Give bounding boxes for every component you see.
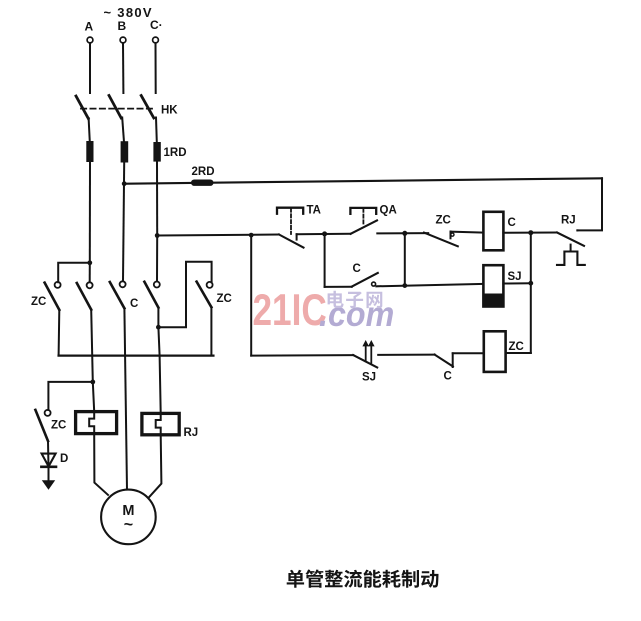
svg-text:C: C bbox=[130, 298, 138, 310]
contactor ZC contact 2 (phase A) bbox=[87, 282, 93, 288]
wire control main row left bbox=[157, 235, 279, 236]
junction phase A braking branch bbox=[90, 380, 95, 385]
wire phase C fuse down bbox=[156, 162, 158, 237]
wire 2RD control feed line bbox=[124, 178, 602, 183]
coil ZC bbox=[484, 331, 506, 372]
diode D bbox=[42, 454, 56, 467]
caption 单管整流能耗制动 bbox=[287, 570, 304, 588]
wire contact1 bottom bbox=[58, 310, 61, 356]
switch HK pole B blade bbox=[109, 96, 121, 119]
svg-text:ZC: ZC bbox=[436, 215, 451, 227]
svg-text:C: C bbox=[353, 263, 361, 275]
svg-text:C: C bbox=[444, 371, 452, 383]
contact C bottom row bbox=[435, 355, 453, 367]
contactor ZC contact 5 bracket bbox=[158, 262, 211, 327]
wire phase C to motor bbox=[149, 435, 162, 498]
wire self-hold left vertical bbox=[324, 234, 326, 287]
svg-text:ZC: ZC bbox=[217, 293, 232, 305]
pushbutton QA bbox=[350, 208, 376, 214]
coil C bbox=[483, 212, 503, 251]
wire phase B fuse down bbox=[123, 163, 124, 282]
thermal element RJ phase A bbox=[76, 412, 117, 434]
wire phase B HK to fuse bbox=[122, 118, 124, 143]
coil SJ bbox=[483, 265, 503, 306]
contactor ZC contact 1 bbox=[55, 282, 61, 288]
thermal element RJ phase C bbox=[142, 413, 179, 434]
svg-text:~: ~ bbox=[124, 517, 133, 534]
svg-text:C·: C· bbox=[150, 18, 163, 32]
junction right vertical top bbox=[528, 230, 533, 235]
junction bracket phase C bbox=[156, 325, 161, 330]
contact C self-hold bbox=[325, 286, 352, 288]
svg-text:ZC: ZC bbox=[509, 341, 524, 353]
contactor C contact 3 (phase B) bbox=[120, 281, 126, 287]
wire contact5 bottom bbox=[210, 307, 212, 355]
svg-text:TA: TA bbox=[307, 205, 321, 217]
wire phase C terminal to HK bbox=[155, 43, 157, 93]
svg-text:ZC: ZC bbox=[51, 420, 66, 432]
svg-text:A: A bbox=[85, 20, 94, 34]
junction phase B 2RD bbox=[122, 181, 127, 186]
fuse phase B bbox=[121, 141, 129, 162]
contactor ZC contact 1 bracket bbox=[58, 263, 90, 283]
wire phase A HK to fuse bbox=[89, 118, 90, 142]
contact RJ NC thermal bbox=[557, 233, 584, 246]
wire ZC to C coil bbox=[451, 232, 484, 233]
junction control line phase C bbox=[155, 233, 160, 238]
wire C coil to RJ bbox=[503, 232, 557, 234]
contact ZC NC bbox=[424, 233, 458, 247]
fuse phase A bbox=[86, 141, 93, 162]
svg-text:D: D bbox=[60, 453, 68, 465]
contactor ZC contact 5 bbox=[207, 282, 213, 288]
wire braking branch horizontal bbox=[48, 382, 92, 410]
junction bracket phase A bbox=[87, 260, 92, 265]
switch HK pole A blade bbox=[76, 96, 88, 119]
wire bottom branch vertical bbox=[250, 235, 252, 356]
contactor C contact 4 (phase C) bbox=[154, 282, 160, 288]
wire contact6 to diode bbox=[47, 441, 50, 467]
wire phase A fuse to bracket junction bbox=[89, 162, 91, 263]
wire right vertical bbox=[530, 233, 532, 353]
contactor ZC contact 6 bbox=[45, 410, 51, 416]
svg-text:B: B bbox=[118, 19, 127, 33]
svg-text:SJ: SJ bbox=[362, 372, 376, 384]
wire phase A terminal to HK bbox=[89, 43, 91, 93]
wire braking rail bbox=[59, 354, 214, 356]
junction self-hold left bbox=[322, 231, 327, 236]
svg-text:SJ: SJ bbox=[508, 271, 522, 283]
svg-text:ZC: ZC bbox=[31, 296, 46, 308]
svg-text:C: C bbox=[508, 217, 516, 229]
contact SJ delayed bbox=[353, 355, 377, 367]
wire bottom row left bbox=[251, 354, 353, 357]
wire QA right bbox=[377, 232, 428, 234]
HK dashed link bbox=[81, 108, 156, 110]
wire contact4 bottom (phase C) bbox=[158, 308, 160, 414]
wire phase A to motor bbox=[94, 434, 108, 495]
svg-text:HK: HK bbox=[161, 105, 178, 117]
watermark 电子网 bbox=[328, 291, 344, 308]
svg-text:QA: QA bbox=[380, 205, 397, 217]
wire ZC coil right bbox=[506, 352, 531, 354]
wire phase B terminal to HK bbox=[122, 43, 124, 93]
svg-text:RJ: RJ bbox=[184, 427, 199, 439]
wire self-hold right vertical bbox=[404, 233, 406, 285]
fuse 1RD phase C bbox=[153, 142, 160, 162]
svg-text:1RD: 1RD bbox=[164, 147, 187, 159]
wire C contact to ZC coil bbox=[453, 352, 484, 354]
svg-text:~ 380V: ~ 380V bbox=[104, 5, 153, 20]
svg-text:RJ: RJ bbox=[561, 215, 576, 227]
wire self-hold row to SJ coil bbox=[376, 284, 483, 286]
svg-text:21IC: 21IC bbox=[253, 286, 327, 335]
wire control feed right vertical bbox=[577, 178, 602, 230]
arrow terminal bbox=[42, 480, 55, 490]
wire contact2 bottom (phase A) bbox=[91, 310, 93, 382]
junction right vertical SJ row bbox=[528, 281, 533, 286]
wire TA to QA bbox=[297, 233, 351, 236]
wire SJ coil right bbox=[503, 282, 530, 284]
wire SJ to C contact bbox=[378, 354, 434, 356]
pushbutton TA bbox=[277, 208, 303, 214]
motor M bbox=[101, 490, 156, 545]
wire contact3 bottom (phase B to motor) bbox=[124, 308, 127, 489]
junction SJ row bbox=[402, 283, 407, 288]
junction bottom branch bbox=[249, 233, 254, 238]
switch HK pole C blade bbox=[141, 96, 154, 119]
junction self-hold right bbox=[402, 231, 407, 236]
wire phase C HK to fuse bbox=[155, 118, 158, 143]
svg-text:2RD: 2RD bbox=[192, 166, 215, 178]
fuse 2RD bbox=[191, 180, 214, 186]
